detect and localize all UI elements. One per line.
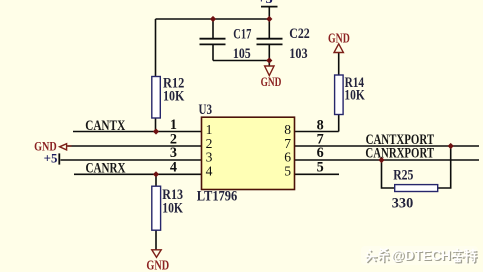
svg-text:GND: GND: [261, 75, 282, 89]
svg-text:5: 5: [317, 159, 324, 175]
svg-text:6: 6: [284, 150, 291, 165]
svg-text:+5: +5: [44, 152, 58, 166]
svg-text:@DTECH: @DTECH: [391, 248, 451, 263]
svg-text:5: 5: [284, 163, 291, 178]
svg-text:CANRXPORT: CANRXPORT: [365, 146, 434, 162]
svg-text:4: 4: [206, 163, 213, 178]
svg-text:GND: GND: [328, 31, 350, 46]
svg-text:4: 4: [170, 160, 177, 176]
svg-text:105: 105: [233, 46, 251, 62]
svg-text:+5: +5: [257, 0, 273, 6]
svg-text:8: 8: [284, 122, 291, 137]
svg-text:10K: 10K: [162, 200, 183, 216]
svg-text:GND: GND: [146, 257, 169, 272]
svg-text:R25: R25: [393, 168, 413, 184]
svg-text:103: 103: [289, 46, 307, 62]
svg-text:U3: U3: [199, 102, 213, 118]
svg-text:10K: 10K: [163, 89, 184, 105]
svg-text:CANRX: CANRX: [86, 161, 126, 177]
svg-text:C17: C17: [233, 27, 251, 43]
svg-text:C22: C22: [289, 26, 310, 42]
svg-text:LT1796: LT1796: [197, 189, 238, 205]
svg-text:10K: 10K: [344, 88, 364, 104]
svg-text:1: 1: [206, 122, 213, 137]
svg-text:CANTX: CANTX: [85, 118, 125, 134]
svg-text:3: 3: [206, 150, 213, 165]
svg-text:330: 330: [392, 196, 413, 212]
